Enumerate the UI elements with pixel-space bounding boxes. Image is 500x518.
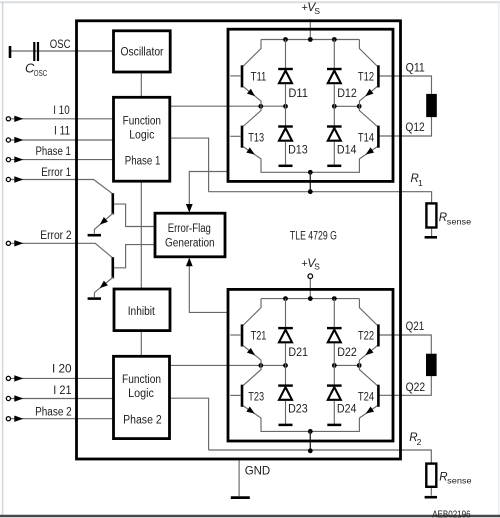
- svg-text:Q12: Q12: [405, 122, 424, 134]
- wire bridge 1 right node: [334, 105, 359, 107]
- wire I11 input line: [11, 139, 114, 141]
- arrow input Phase 2: [14, 416, 23, 422]
- transistor error 2 open-collector base wire: [114, 245, 155, 268]
- diode D23 cathode bar: [278, 384, 293, 386]
- transistor T14 emitter arrow: [364, 147, 374, 157]
- svg-text:I 11: I 11: [54, 126, 70, 138]
- transistor T14 base bar: [377, 126, 380, 148]
- diode D13 cathode wire: [285, 106, 287, 125]
- oscillator block U-OSC: [114, 31, 171, 72]
- svg-text:Phase 2: Phase 2: [35, 406, 72, 418]
- terminal circle input I 20: [6, 376, 10, 380]
- diode D23 triangle: [279, 387, 292, 400]
- svg-text:Oscillator: Oscillator: [121, 47, 164, 59]
- transistor T21 base bar: [241, 324, 244, 346]
- svg-text:I 10: I 10: [53, 105, 69, 117]
- svg-text:Phase 2: Phase 2: [123, 414, 162, 426]
- svg-text:Q22: Q22: [406, 382, 426, 394]
- diode D12 anode wire: [333, 84, 335, 106]
- wire I21 input line: [11, 398, 114, 400]
- motor winding 2 between Q21 and Q22: [426, 354, 437, 376]
- terminal circle input I 10: [6, 117, 10, 121]
- diode D11 cathode wire: [285, 40, 287, 69]
- wire bridge 2 bottom rail: [261, 418, 359, 432]
- wire Q22 output line: [379, 376, 431, 395]
- wire function logic 2 to bridge 2 node A2: [170, 364, 286, 366]
- transistor T21 emitter arrow: [247, 348, 257, 358]
- transistor T24 emitter arrow: [364, 407, 374, 417]
- transistor error 1 emitter wire: [94, 213, 113, 234]
- resistor Rsense 1: [426, 203, 436, 227]
- diode D12 triangle: [328, 71, 341, 84]
- junction on supply rail at +VS feed: [308, 296, 313, 301]
- svg-text:TLE 4729 G: TLE 4729 G: [290, 230, 337, 242]
- transistor T23 emitter arrow: [246, 407, 256, 417]
- arrow input I 11: [14, 137, 23, 143]
- junction on R sense line: [308, 448, 313, 453]
- wire I10 input line: [11, 118, 114, 120]
- transistor T13 base stub: [230, 135, 241, 137]
- svg-text:T21: T21: [251, 330, 267, 342]
- wire bridge 2 sense tap to error-flag generation: [189, 266, 228, 313]
- diode D23 anode terminal bar: [279, 424, 293, 427]
- junction on R sense line: [308, 189, 313, 194]
- page bottom border: [0, 515, 500, 517]
- svg-text:T23: T23: [248, 392, 264, 404]
- wire bridge 1 bottom rail drop to sense line: [309, 172, 311, 191]
- transistor T23 emitter wire: [243, 406, 261, 418]
- wire bridge 1 sense tap to error-flag generation: [189, 172, 228, 205]
- arrow input I 20: [14, 375, 23, 381]
- diode D13 cathode bar: [278, 125, 293, 127]
- transistor error 1 base bar: [112, 193, 115, 214]
- diode D11 triangle: [279, 71, 292, 84]
- diode D11 cathode bar: [278, 68, 293, 70]
- wire +VS supply drop into bridge 1: [309, 19, 311, 39]
- node bridge 2 left output junction: [258, 363, 263, 368]
- svg-text:D24: D24: [337, 403, 357, 415]
- diode D24 cathode wire: [333, 365, 335, 384]
- wire Phase 1 input line: [11, 159, 114, 161]
- transistor T21 collector wire: [243, 299, 261, 326]
- junction D12 anode at node: [332, 104, 337, 109]
- transistor error 1 open-collector base wire: [114, 204, 155, 226]
- diode D24 anode wire: [333, 401, 335, 424]
- diode D14 anode terminal bar: [327, 165, 341, 168]
- wire bridge 1 bottom rail: [261, 159, 359, 173]
- transistor error 1 emitter arrow: [98, 217, 108, 227]
- transistor T14 emitter wire: [359, 147, 377, 159]
- transistor T12 collector wire: [359, 40, 377, 67]
- ground Rsense 2: [425, 496, 437, 499]
- IC boundary box TLE 4729 G: [77, 21, 401, 459]
- page right border: [498, 2, 500, 516]
- transistor T13 emitter wire: [243, 147, 261, 159]
- error-flag generation block: [155, 213, 225, 257]
- terminal circle input Error 1: [6, 177, 10, 181]
- svg-text:Q21: Q21: [406, 321, 425, 333]
- motor winding 1 between Q11 and Q12: [426, 94, 437, 117]
- diode D22 triangle: [328, 330, 341, 343]
- transistor T21 emitter wire: [243, 345, 261, 365]
- diode D14 anode wire: [333, 142, 335, 165]
- terminal circle input Phase 2: [6, 417, 10, 421]
- diode D24 anode terminal bar: [327, 424, 341, 427]
- wire R1 sense line: [209, 192, 432, 204]
- wire Rsense 2 ground lead: [430, 487, 432, 496]
- transistor T13 base bar: [241, 126, 244, 148]
- svg-text:Function: Function: [123, 115, 161, 127]
- svg-text:sense: sense: [447, 216, 472, 226]
- ground Rsense 1: [425, 236, 437, 239]
- junction on supply rail at D22: [332, 296, 337, 301]
- ground error transistor 2: [88, 297, 101, 300]
- arrow input Error 1: [14, 176, 23, 182]
- diode D24 triangle: [328, 387, 341, 400]
- svg-text:1: 1: [418, 178, 423, 188]
- diode D22 cathode bar: [327, 327, 342, 329]
- transistor error 2 emitter arrow: [98, 281, 108, 291]
- svg-text:I 20: I 20: [52, 364, 72, 376]
- svg-text:OSC: OSC: [50, 39, 71, 51]
- diode D23 anode wire: [285, 401, 287, 424]
- junction on supply rail at D11: [283, 37, 288, 42]
- wire function logic 2 sense feedback to R2 line: [170, 398, 209, 450]
- wire bridge 1 top supply rail: [261, 39, 359, 41]
- wire Rsense 1 ground lead: [431, 228, 433, 237]
- wire GND lead: [238, 459, 240, 496]
- inhibit block: [114, 289, 170, 331]
- wire +VS terminal drop into bridge 2: [309, 278, 311, 298]
- transistor T13 emitter arrow: [246, 147, 256, 157]
- capacitor C-OSC plates: [33, 42, 35, 61]
- diode D21 anode wire: [285, 344, 287, 366]
- capacitor C-OSC terminal bar: [9, 46, 12, 58]
- diode D21 cathode bar: [278, 327, 293, 329]
- svg-text:S: S: [314, 262, 320, 272]
- svg-text:S: S: [314, 6, 320, 16]
- transistor T11 emitter wire: [243, 86, 261, 106]
- wire Q21 output line: [379, 335, 431, 354]
- diode D13 anode terminal bar: [279, 165, 293, 168]
- svg-text:Phase 1: Phase 1: [36, 146, 71, 158]
- svg-text:Phase 1: Phase 1: [125, 155, 161, 167]
- transistor T23 base bar: [241, 385, 244, 407]
- transistor T11 base bar: [241, 65, 244, 87]
- terminal circle +VS bridge 2: [308, 274, 313, 279]
- node bridge 1 left output junction: [258, 104, 263, 109]
- svg-text:D13: D13: [288, 144, 308, 156]
- svg-text:2: 2: [417, 437, 422, 447]
- wire oscillator to function logic 1 spine: [140, 72, 142, 97]
- terminal circle input I 11: [6, 138, 10, 142]
- ground GND symbol: [231, 496, 250, 499]
- transistor T11 collector wire: [243, 40, 261, 67]
- svg-text:T22: T22: [358, 330, 374, 342]
- svg-text:Inhibit: Inhibit: [128, 306, 156, 318]
- svg-text:D23: D23: [288, 403, 308, 415]
- diode D12 cathode bar: [327, 68, 342, 70]
- wire Phase 2 input line: [11, 418, 114, 420]
- diode D22 anode wire: [333, 344, 335, 366]
- svg-text:T12: T12: [358, 71, 374, 83]
- junction D21 anode at node: [283, 363, 288, 368]
- wire Q12 output line: [379, 117, 432, 136]
- wire function logic 1 to bridge 1 node A1: [170, 105, 286, 107]
- wire bridge 2 top supply rail: [261, 298, 359, 300]
- wire bridge 2 bottom rail drop to sense line: [309, 431, 311, 450]
- transistor T11 emitter arrow: [247, 89, 257, 99]
- transistor error 2 base bar: [112, 257, 115, 278]
- transistor T24 base bar: [377, 385, 380, 407]
- H-bridge 1 box: [228, 29, 393, 181]
- transistor T23 collector wire: [243, 365, 261, 385]
- svg-text:Error 1: Error 1: [41, 167, 71, 179]
- function logic phase 2 block: [114, 356, 170, 438]
- arrow bridge 2 sense into error-flag generation: [186, 258, 193, 267]
- transistor T14 collector wire: [359, 106, 377, 126]
- svg-text:D22: D22: [337, 347, 357, 359]
- transistor T13 collector wire: [243, 106, 261, 126]
- transistor T24 collector wire: [359, 365, 377, 385]
- node bridge 1 right output junction: [357, 104, 362, 109]
- wire R2 sense line: [209, 450, 432, 464]
- diode D14 triangle: [328, 128, 341, 141]
- svg-text:Error-Flag: Error-Flag: [168, 223, 211, 235]
- transistor T12 emitter wire: [359, 86, 377, 106]
- transistor T21 base stub: [230, 334, 241, 336]
- svg-text:GND: GND: [245, 465, 271, 478]
- svg-text:Function: Function: [122, 374, 161, 386]
- terminal circle input Phase 1: [6, 158, 10, 162]
- wire Q11 output line: [379, 76, 432, 94]
- transistor T22 emitter wire: [359, 345, 377, 365]
- svg-text:D21: D21: [288, 347, 308, 359]
- wire function logic 1 to inhibit spine: [140, 181, 142, 289]
- diode D22 cathode wire: [333, 299, 335, 328]
- resistor Rsense 2: [426, 464, 436, 487]
- junction bridge 2 bottom rail to sense: [308, 429, 313, 434]
- svg-text:Q11: Q11: [406, 63, 425, 75]
- wire OSC line from capacitor to Oscillator: [11, 50, 114, 52]
- transistor T22 collector wire: [359, 299, 377, 326]
- svg-text:T13: T13: [248, 133, 264, 145]
- diode D24 cathode bar: [327, 384, 342, 386]
- svg-text:Logic: Logic: [128, 388, 154, 400]
- transistor T12 base bar: [377, 65, 380, 87]
- junction on supply rail at +VS feed: [308, 37, 313, 42]
- wire bridge 2 right node: [334, 364, 359, 366]
- arrow input Error 2: [14, 240, 23, 246]
- H-bridge 2 box: [228, 289, 393, 441]
- svg-text:T14: T14: [358, 133, 375, 145]
- terminal circle input I 21: [6, 396, 10, 400]
- diode D14 cathode wire: [333, 106, 335, 125]
- page top border: [0, 1, 500, 3]
- function logic phase 1 block: [114, 97, 170, 181]
- transistor T12 emitter arrow: [363, 89, 373, 99]
- node bridge 2 right output junction: [357, 363, 362, 368]
- arrow bridge 1 sense into error-flag generation: [186, 204, 193, 213]
- junction D22 anode at node: [332, 363, 337, 368]
- wire I20 input line: [11, 377, 114, 379]
- transistor T22 emitter arrow: [363, 348, 373, 358]
- wire Error 1 input line: [11, 180, 113, 194]
- junction on supply rail at D21: [283, 296, 288, 301]
- diode D21 triangle: [279, 330, 292, 343]
- diode D13 anode wire: [285, 142, 287, 165]
- junction on supply rail at D12: [332, 37, 337, 42]
- svg-text:AEB02196: AEB02196: [432, 508, 471, 518]
- terminal circle input Error 2: [6, 241, 10, 245]
- svg-text:sense: sense: [447, 476, 472, 486]
- diode D13 triangle: [279, 128, 292, 141]
- svg-text:I 21: I 21: [53, 385, 71, 397]
- wire Error 2 input line: [11, 243, 113, 257]
- diode D11 anode wire: [285, 84, 287, 106]
- transistor error 2 emitter wire: [94, 277, 113, 297]
- transistor T23 base stub: [230, 394, 241, 396]
- svg-text:D14: D14: [337, 144, 357, 156]
- svg-text:Generation: Generation: [165, 237, 215, 249]
- arrow input I 10: [14, 116, 23, 122]
- wire function logic 1 sense feedback to R1 line: [170, 138, 209, 192]
- page left border: [2, 2, 4, 516]
- ground error transistor 1: [88, 234, 101, 237]
- arrow input Phase 1: [14, 156, 23, 162]
- diode D12 cathode wire: [333, 40, 335, 69]
- svg-text:D12: D12: [337, 88, 357, 100]
- diode D23 cathode wire: [285, 365, 287, 384]
- arrow input I 21: [14, 395, 23, 401]
- svg-text:T24: T24: [358, 392, 375, 404]
- svg-text:T11: T11: [251, 71, 267, 83]
- transistor T11 base stub: [230, 75, 241, 77]
- transistor T24 emitter wire: [359, 406, 377, 418]
- svg-text:Logic: Logic: [129, 129, 154, 141]
- svg-text:D11: D11: [288, 88, 308, 100]
- wire inhibit to function logic 2 spine: [140, 331, 142, 357]
- diode D14 cathode bar: [327, 125, 342, 127]
- transistor T22 base bar: [377, 324, 380, 346]
- diode D21 cathode wire: [285, 299, 287, 328]
- junction D11 anode at node: [283, 104, 288, 109]
- svg-text:OSC: OSC: [34, 68, 47, 78]
- junction bridge 1 bottom rail to sense: [308, 170, 313, 175]
- svg-text:Error 2: Error 2: [40, 230, 71, 242]
